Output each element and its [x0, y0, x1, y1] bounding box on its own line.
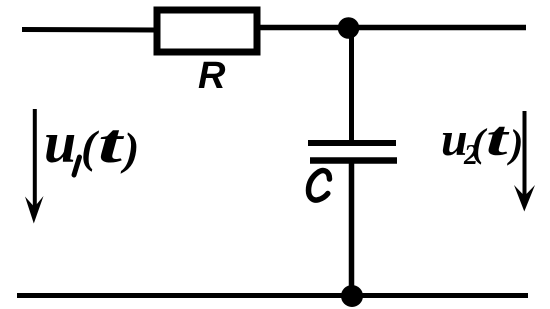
wire: capacitor top lead — [349, 27, 354, 141]
label R — [198, 55, 226, 97]
node: bottom junction — [341, 285, 363, 307]
resistor R — [157, 10, 257, 52]
arrow: u2 direction (right) — [514, 111, 535, 212]
arrow: u1 direction (left) — [25, 109, 44, 224]
svg-text:t: t — [98, 113, 124, 175]
label u2(t) — [441, 110, 523, 171]
svg-text:): ) — [507, 121, 523, 166]
svg-text:R: R — [198, 55, 226, 97]
wire: capacitor bottom lead — [349, 161, 355, 296]
label u1(t) — [44, 110, 139, 175]
node: top junction — [338, 17, 360, 39]
svg-text:t: t — [486, 110, 511, 166]
svg-text:u: u — [44, 110, 76, 175]
label C — [309, 171, 330, 201]
capacitor C — [308, 143, 397, 161]
wire: bottom rail — [17, 293, 528, 298]
wire: top-left segment (input to resistor) — [22, 27, 156, 33]
svg-text:): ) — [120, 123, 139, 174]
wire: top-right segment (resistor to output) — [260, 25, 526, 31]
